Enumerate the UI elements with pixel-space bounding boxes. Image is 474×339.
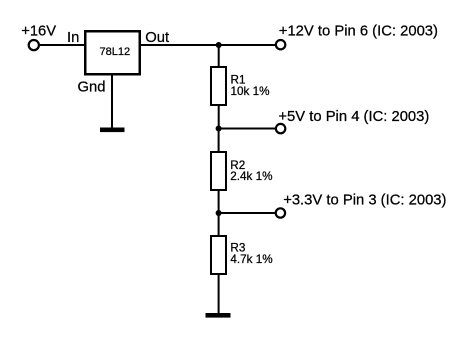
ground (divider): [206, 313, 231, 318]
resistor R2: [211, 152, 226, 190]
wire R2 to node: [218, 190, 220, 213]
svg-text:+16V: +16V: [21, 24, 56, 40]
node junction at +5V rail: [216, 126, 222, 132]
terminal +12V: [276, 40, 285, 49]
terminal +3.3V: [276, 208, 285, 217]
svg-text:4.7k 1%: 4.7k 1%: [230, 253, 272, 266]
resistor R1: [211, 67, 226, 105]
svg-text:10k 1%: 10k 1%: [231, 85, 270, 98]
label +12V to Pin 6: [279, 24, 438, 40]
ground (regulator): [100, 128, 125, 133]
wire R1 to node: [218, 105, 220, 129]
value label 78L12: [100, 46, 131, 58]
pin label Out: [145, 30, 169, 46]
wire regulator Gnd to ground: [111, 76, 113, 129]
label +16V: [21, 24, 56, 40]
value label R2 2.4k 1%: [230, 159, 272, 183]
wire node to R3: [218, 213, 220, 237]
svg-text:Gnd: Gnd: [78, 79, 106, 95]
wire node to R2: [218, 129, 220, 154]
wire R3 to ground: [218, 274, 220, 314]
svg-text:2.4k 1%: 2.4k 1%: [230, 170, 272, 183]
label +5V to Pin 4: [278, 109, 429, 125]
svg-text:In: In: [67, 30, 79, 46]
resistor R3: [211, 236, 226, 274]
svg-text:78L12: 78L12: [100, 46, 131, 58]
value label R3 4.7k 1%: [230, 242, 272, 266]
svg-text:+12V to Pin 6 (IC: 2003): +12V to Pin 6 (IC: 2003): [279, 24, 438, 40]
svg-text:+3.3V to Pin 3 (IC: 2003): +3.3V to Pin 3 (IC: 2003): [283, 193, 446, 209]
svg-text:+5V to Pin 4 (IC: 2003): +5V to Pin 4 (IC: 2003): [278, 109, 429, 125]
wire Out to +12V terminal: [140, 44, 276, 46]
svg-text:Out: Out: [145, 30, 169, 46]
value label R1 10k 1%: [231, 74, 270, 98]
node junction at +12V rail: [216, 42, 222, 48]
label +3.3V to Pin 3: [283, 193, 446, 209]
wire node to +5V terminal: [219, 128, 276, 130]
terminal +16V input: [29, 40, 39, 50]
voltage regulator U1 78L12: [85, 31, 140, 74]
wire input to regulator In: [40, 44, 85, 46]
pin label Gnd: [78, 79, 106, 95]
terminal +5V: [276, 124, 285, 133]
node junction at +3.3V rail: [216, 210, 222, 216]
wire node to R1: [218, 45, 220, 68]
wire node to +3.3V terminal: [219, 212, 276, 214]
pin label In: [67, 30, 79, 46]
